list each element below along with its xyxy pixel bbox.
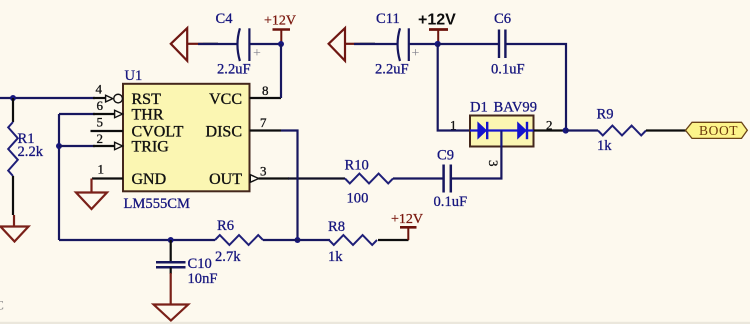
wire R6 to DISC node xyxy=(263,239,298,241)
svg-text:2.2uF: 2.2uF xyxy=(217,62,251,78)
svg-text:5: 5 xyxy=(97,115,104,130)
capacitor C4 2.2uF polarized xyxy=(216,11,262,78)
pin 5 CVOLT xyxy=(91,115,124,132)
power port arrow left of C4 xyxy=(171,28,218,61)
power +12V (bold main) xyxy=(418,12,456,45)
wire THR/TRIG vertical xyxy=(58,114,60,240)
node DISC bottom junction xyxy=(295,237,301,243)
svg-text:0.1uF: 0.1uF xyxy=(491,62,525,78)
svg-text:+: + xyxy=(253,46,261,61)
resistor R10 100 xyxy=(345,158,394,207)
pin 7 DISC xyxy=(250,115,282,131)
wire +12V down to VCC pin xyxy=(280,44,282,98)
ground under R1 xyxy=(1,215,29,242)
wire +12V node to C6 xyxy=(438,43,498,45)
svg-text:+12V: +12V xyxy=(418,12,456,29)
wire THR horizontal xyxy=(59,113,95,115)
svg-text:2.2uF: 2.2uF xyxy=(375,62,409,78)
wire +12V node down to D1 pin1 xyxy=(438,44,470,131)
svg-text:8: 8 xyxy=(262,83,269,98)
svg-text:R6: R6 xyxy=(217,218,234,234)
wire C10 bottom xyxy=(170,267,172,274)
svg-text:VCC: VCC xyxy=(209,91,242,108)
node +12V junction xyxy=(435,41,441,47)
svg-text:R10: R10 xyxy=(345,158,369,174)
pin 2 TRIG xyxy=(93,131,123,150)
node C10 junction xyxy=(168,237,174,243)
svg-text:100: 100 xyxy=(347,191,369,207)
bottom window edge xyxy=(0,322,750,324)
diode D1 BAV99 xyxy=(450,100,553,167)
svg-text:D1: D1 xyxy=(470,100,488,116)
power +12V (VCC branch) xyxy=(264,14,296,45)
resistor R9 1k xyxy=(597,107,646,155)
svg-text:TRIG: TRIG xyxy=(132,139,170,156)
wire left rail to RST xyxy=(0,97,95,99)
resistor R6 2.7k xyxy=(215,218,263,265)
wire C11 to +12V node xyxy=(409,43,438,45)
wire OUT to R10 xyxy=(288,177,345,179)
wire D1 pin3 to C9 xyxy=(451,147,501,179)
wire arrow to C4 xyxy=(198,43,238,45)
svg-text:C11: C11 xyxy=(376,11,400,27)
node R1 top junction xyxy=(10,95,16,101)
svg-text:DISC: DISC xyxy=(206,124,242,141)
svg-text:4: 4 xyxy=(96,82,103,97)
svg-text:C10: C10 xyxy=(188,256,212,272)
svg-text:2: 2 xyxy=(97,131,104,146)
capacitor C9 0.1uF xyxy=(434,148,468,211)
wire arrow to C11 xyxy=(354,43,398,45)
svg-text:1: 1 xyxy=(450,118,457,133)
wire DISC node to R8 xyxy=(298,239,331,241)
svg-text:+12V: +12V xyxy=(264,14,296,29)
node TRIG junction xyxy=(56,143,62,149)
svg-text:BOOT: BOOT xyxy=(699,123,738,138)
svg-text:U1: U1 xyxy=(125,68,143,84)
resistor R8 1k xyxy=(328,219,377,265)
wire bottom rail left xyxy=(59,239,215,241)
svg-text:GND: GND xyxy=(132,171,167,188)
svg-text:+: + xyxy=(412,46,420,61)
pin 3 OUT xyxy=(250,164,289,183)
svg-text:1k: 1k xyxy=(597,138,612,154)
wire R1 bottom xyxy=(12,176,14,215)
svg-text:3: 3 xyxy=(260,164,267,179)
wire R8 to +12V xyxy=(378,239,409,241)
svg-text:1: 1 xyxy=(98,162,105,177)
capacitor C11 2.2uF polarized xyxy=(375,11,420,78)
power +12V (R8 branch) xyxy=(391,212,423,240)
svg-text:C9: C9 xyxy=(437,148,454,164)
wire TRIG horizontal xyxy=(59,145,95,147)
pin 8 VCC xyxy=(250,83,282,98)
pin 1 GND xyxy=(92,162,123,179)
wire node to R9 xyxy=(566,129,598,131)
op-amp U1 body LM555CM xyxy=(123,68,250,212)
node VCC junction xyxy=(278,41,284,47)
port BOOT xyxy=(686,122,748,138)
svg-text:RST: RST xyxy=(132,91,162,108)
svg-text:7: 7 xyxy=(260,115,267,130)
svg-text:LM555CM: LM555CM xyxy=(124,196,191,212)
wire C10 top xyxy=(170,240,172,262)
svg-text:1k: 1k xyxy=(328,249,343,265)
ground under C10 xyxy=(154,273,189,321)
svg-text:OUT: OUT xyxy=(209,171,242,188)
svg-text:2.2k: 2.2k xyxy=(18,144,44,160)
wire R1 top xyxy=(12,98,14,122)
stray sheet text C bottom left xyxy=(0,299,4,313)
wire R10 to C9 xyxy=(393,177,443,179)
wire DISC down to bottom rail xyxy=(281,131,298,241)
svg-text:R9: R9 xyxy=(597,107,614,123)
resistor R1 xyxy=(8,122,44,176)
capacitor C6 0.1uF xyxy=(491,11,525,78)
svg-text:+12V: +12V xyxy=(391,212,423,227)
svg-text:0.1uF: 0.1uF xyxy=(434,194,468,210)
ground under GND pin xyxy=(76,179,107,210)
wire C4 to +12V node xyxy=(249,43,281,45)
svg-text:3: 3 xyxy=(486,160,501,167)
svg-text:6: 6 xyxy=(97,98,104,113)
svg-text:C6: C6 xyxy=(494,11,511,27)
svg-text:C: C xyxy=(0,299,4,313)
capacitor C10 10nF xyxy=(156,256,218,287)
svg-text:10nF: 10nF xyxy=(188,271,218,287)
wire D1 pin2 to node xyxy=(534,129,567,131)
svg-text:R8: R8 xyxy=(328,219,345,235)
svg-text:C4: C4 xyxy=(216,11,234,27)
pin 4 RST xyxy=(93,82,122,103)
wire C6 to right corner xyxy=(506,44,566,131)
pin 6 THR xyxy=(93,98,123,118)
node D1 pin2 junction xyxy=(563,127,569,133)
svg-text:BAV99: BAV99 xyxy=(494,100,538,116)
svg-text:THR: THR xyxy=(132,107,164,124)
svg-text:2.7k: 2.7k xyxy=(215,249,241,265)
power port arrow left of C11 xyxy=(329,28,375,61)
wire R9 to BOOT port xyxy=(646,129,686,131)
